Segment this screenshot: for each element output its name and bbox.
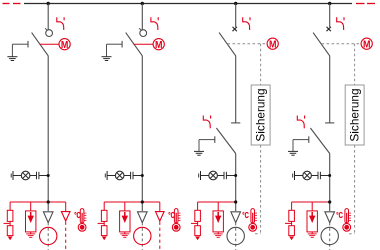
trip triangle (red) <box>156 212 165 221</box>
resistor divider R upper <box>7 210 13 221</box>
voltage transformer triangle <box>231 212 241 223</box>
capacitor <box>37 172 39 179</box>
switch blade (open) <box>219 33 236 56</box>
trip release (red) <box>57 17 64 30</box>
switch fixed contact circle <box>140 30 147 37</box>
wire <box>39 175 48 177</box>
switch blade 2 (open) <box>216 128 235 154</box>
capacitor <box>224 172 226 179</box>
earth arrow <box>195 237 200 241</box>
mechanical link dashes to motor <box>322 43 362 45</box>
protection bus wire (red) <box>198 201 236 203</box>
wire <box>291 202 293 210</box>
junction <box>328 174 331 177</box>
resistor divider R lower <box>195 226 201 236</box>
feeder wire down <box>329 154 331 212</box>
resistor divider R lower <box>7 226 13 236</box>
voltage tap symbol <box>293 171 295 180</box>
protection bus wire (red) <box>104 201 160 203</box>
thermometer <box>78 209 86 232</box>
wire <box>311 175 318 177</box>
resistor divider R upper <box>289 210 295 221</box>
svg-text:Sicherung: Sicherung <box>254 88 268 141</box>
junction <box>47 174 50 177</box>
wire <box>30 202 32 211</box>
instrument circle <box>227 227 244 244</box>
wire <box>311 202 313 211</box>
wire <box>124 202 126 211</box>
switch fixed contact circle <box>46 30 53 37</box>
fuse Sicherung box <box>251 85 270 145</box>
capacitor <box>318 172 320 179</box>
wire <box>124 175 131 177</box>
wire to lower contact <box>235 56 237 123</box>
wire <box>197 202 199 210</box>
wire bus to fuse-switch <box>235 4 237 28</box>
trip release (red) <box>243 17 250 30</box>
junction on busbar feeder 2 <box>141 2 144 5</box>
surge arrester <box>307 211 317 232</box>
lower fixed contact bar <box>231 122 240 124</box>
svg-text:°C: °C <box>168 211 175 220</box>
thermometer <box>172 209 180 232</box>
arrester ground <box>124 232 126 234</box>
svg-text:°C: °C <box>242 211 249 220</box>
indicator lamp <box>209 171 218 180</box>
divider tap wire <box>197 221 199 225</box>
resistor divider R upper <box>195 210 201 221</box>
resistor divider R lower <box>101 226 107 236</box>
wire <box>226 175 235 177</box>
voltage transformer triangle <box>43 212 53 223</box>
feeder wire down <box>47 56 49 211</box>
earthing contact wire <box>107 43 123 45</box>
instrument dashes <box>141 223 143 250</box>
motor operator link <box>40 43 60 45</box>
svg-text:°C: °C <box>336 211 343 220</box>
thermometer <box>249 209 257 232</box>
lower fixed contact bar <box>325 122 334 124</box>
junction on busbar feeder 3 <box>234 2 237 5</box>
voltage transformer triangle <box>138 212 148 223</box>
wire to lower contact <box>329 56 331 123</box>
trip release (red) <box>151 17 158 30</box>
arrester ground <box>311 232 313 234</box>
junction on busbar feeder 4 <box>328 2 331 5</box>
voltage tap symbol <box>105 171 107 180</box>
junction on busbar feeder 1 <box>47 2 50 5</box>
switch blade (open) <box>32 33 49 56</box>
wire bus to fuse-switch <box>329 4 331 28</box>
svg-text:°C: °C <box>74 211 81 220</box>
busbar continuation dashes left <box>3 3 21 5</box>
junction <box>47 200 50 203</box>
switch blade (open) <box>126 33 143 56</box>
earthing contact wire 2 <box>199 139 215 141</box>
earthing contact wire 2 <box>293 139 309 141</box>
junction <box>234 200 237 203</box>
svg-text:Sicherung: Sicherung <box>348 88 362 141</box>
trip dashes (red) <box>159 222 161 250</box>
trip release 2 (red) <box>297 116 304 129</box>
divider tap wire <box>291 221 293 225</box>
fuse striker link dash upper <box>354 44 356 85</box>
junction <box>141 200 144 203</box>
wire <box>295 175 303 177</box>
indicator lamp <box>115 171 124 180</box>
indicator lamp <box>21 171 30 180</box>
feeder wire down <box>235 154 237 212</box>
earth arrow <box>289 237 294 241</box>
indicator lamp <box>303 171 312 180</box>
junction <box>234 174 237 177</box>
instrument dashes <box>235 223 237 250</box>
trip release (red) <box>337 17 344 30</box>
withdrawable contact x <box>233 27 237 31</box>
voltage tap symbol <box>11 171 13 180</box>
wire <box>13 175 21 177</box>
fuse striker link dash lower <box>354 145 356 234</box>
surge arrester <box>213 211 223 232</box>
mechanical link dashes to motor <box>228 43 268 45</box>
junction <box>141 174 144 177</box>
thermometer <box>343 209 351 232</box>
branch to trip triangle (red) <box>65 202 67 212</box>
wire <box>9 202 11 210</box>
surge arrester <box>120 211 130 232</box>
trip triangle (red) <box>61 212 70 221</box>
fuse Sicherung box <box>345 85 364 145</box>
wire <box>217 202 219 211</box>
fuse striker link dash upper <box>260 44 262 85</box>
switch blade 2 (open) <box>310 128 329 154</box>
busbar <box>24 3 352 5</box>
divider tap wire <box>9 221 11 225</box>
wire <box>107 175 115 177</box>
divider tap wire <box>103 221 105 225</box>
capacitor <box>131 172 133 179</box>
motor operator link <box>134 43 154 45</box>
junction <box>328 200 331 203</box>
wire bus to switch contact <box>141 4 143 30</box>
ground 2 <box>194 151 204 155</box>
wire <box>30 175 37 177</box>
instrument circle <box>134 227 151 244</box>
motor operator M <box>267 38 278 50</box>
instrument dashes <box>47 223 49 250</box>
voltage transformer triangle <box>325 212 335 223</box>
wire bus to switch contact <box>47 4 49 30</box>
switch blade (open) <box>313 33 330 56</box>
fuse striker link dash lower <box>260 145 262 234</box>
surge arrester <box>26 211 36 232</box>
protection bus wire (red) <box>10 201 66 203</box>
instrument circle <box>40 227 57 244</box>
withdrawable contact x <box>327 27 331 31</box>
trip release 2 (red) <box>203 116 210 129</box>
motor operator M <box>59 39 70 51</box>
motor operator M <box>361 38 372 50</box>
wire <box>320 175 329 177</box>
ground 2 <box>288 151 298 155</box>
voltage tap symbol <box>199 171 201 180</box>
wire <box>133 175 142 177</box>
instrument circle <box>321 227 338 244</box>
wire <box>201 175 209 177</box>
instrument dashes <box>329 223 331 250</box>
arrester ground <box>30 232 32 234</box>
motor operator M <box>153 39 164 51</box>
ground <box>102 57 112 61</box>
branch to trip triangle (red) <box>159 202 161 212</box>
earth arrow <box>8 237 13 241</box>
earthing contact wire <box>12 43 28 45</box>
arrester ground <box>217 232 219 234</box>
resistor divider R upper <box>101 210 107 221</box>
protection bus wire (red) <box>292 201 330 203</box>
earth arrow <box>102 237 107 241</box>
busbar continuation dashes right <box>356 3 375 5</box>
wire <box>217 175 224 177</box>
ground <box>7 57 17 61</box>
resistor divider R lower <box>289 226 295 236</box>
trip dashes (red) <box>65 222 67 250</box>
wire <box>103 202 105 210</box>
feeder wire down <box>141 56 143 211</box>
